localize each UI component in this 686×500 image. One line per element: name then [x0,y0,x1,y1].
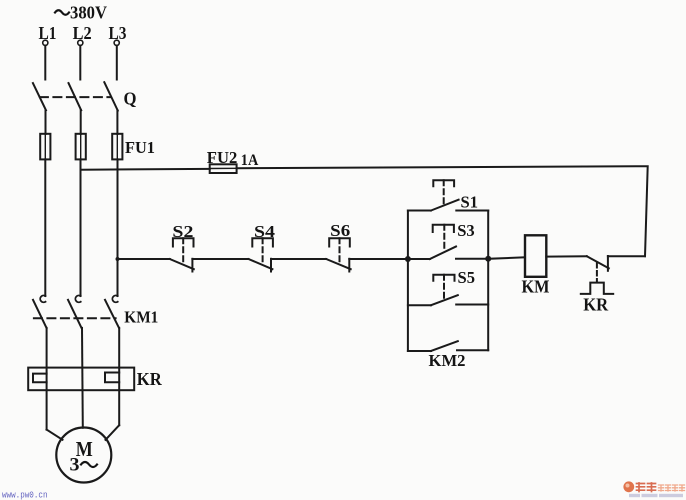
contact KM2 blade (NO) [431,341,458,351]
svg-text:www.pw0.cn: www.pw0.cn [2,489,48,500]
svg-text:380V: 380V [70,3,107,23]
button S4 blade (NC) [249,259,273,269]
svg-text:1A: 1A [241,152,259,169]
node B (right rail junction) [485,256,491,262]
wire control row segment 2 [192,258,248,260]
svg-text:KM2: KM2 [429,351,466,370]
svg-text:L2: L2 [73,23,92,43]
contactor KM1 pole 1 blade [33,300,47,328]
svg-text:S6: S6 [330,221,350,240]
button S5 linkage dashed [443,275,445,299]
button S6 linkage dashed [339,238,341,264]
wire pole2 KM1 to KR box [81,328,84,428]
svg-text:S3: S3 [457,221,475,240]
wire L1 upper [44,46,46,80]
coil KM [525,235,546,276]
wire pole1 KM1 to KR box [46,328,48,430]
node A (left rail junction) [405,256,411,262]
wire control row segment 4 [349,258,408,260]
wire L2 upper [79,46,81,80]
svg-text:KR: KR [583,295,609,315]
button S2 actuator bracket [173,238,194,246]
button S3 blade (NO) [430,247,456,260]
svg-text:Q: Q [124,88,137,108]
fuse FU1 pole 3 [112,134,122,160]
button S2 linkage dashed [182,238,184,264]
watermark dzsc logo circle [623,481,634,492]
contactor KM1 linkage dashed [34,317,116,319]
relay KR thermal element symbol [581,283,613,294]
wire motor lead 3 diagonal [106,425,120,440]
switch Q pole 3 blade [104,82,118,110]
svg-text:KM1: KM1 [124,307,158,326]
wire KR contact to right riser [608,255,645,257]
wire L3 upper [116,46,118,80]
fuse FU1 pole 1 [40,134,50,160]
button S5 actuator bracket [433,275,454,281]
contactor KM1 pole 3 blade [105,300,119,328]
wire left rail [407,211,409,352]
contactor KM1 pole 3 arc [112,295,117,302]
wire L3 lower (to KM1) [117,159,119,296]
switch Q linkage dashed [40,96,111,98]
contactor KM1 pole 1 arc [40,295,45,302]
button S3 left wire [408,258,430,260]
button S3 actuator bracket [433,225,454,232]
svg-text:KR: KR [137,369,163,389]
button S1 branch left wire [408,210,431,212]
wire L1 mid [45,110,47,134]
button S6 actuator bracket [329,238,350,246]
switch Q pole 2 blade [69,83,82,110]
wire control top right [237,166,648,256]
wire right rail [487,211,489,351]
svg-text:S5: S5 [458,268,476,287]
terminal L2 [73,23,92,46]
button S2 blade (NC) [170,259,194,269]
button S1 blade (NO) [431,200,459,211]
node junction L3 tap [116,257,120,261]
wire node B to coil [488,257,525,259]
wire coil to KR contact [546,255,587,257]
svg-text:FU2: FU2 [207,148,238,167]
relay KR box [28,368,134,391]
button S1 linkage dashed [443,180,445,203]
button S4 linkage dashed [262,238,264,264]
contactor KM1 pole 2 arc [75,295,80,302]
relay KR linkage dashed [596,263,598,281]
wire control top (tap from L2) [81,168,210,171]
svg-text:FU1: FU1 [125,138,155,157]
terminal L3 [109,23,127,46]
fuse FU2 [210,164,237,173]
svg-text:L1: L1 [39,23,57,43]
watermark dzsc sub text strip [629,494,683,497]
contact KM2 branch left wire [408,350,431,352]
supply label ~380V [55,3,107,23]
motor M circle [56,428,111,483]
wire L2 lower (to KM1) [80,159,82,296]
wire control row segment 1 [118,258,170,260]
wire L1 lower (to KM1) [44,159,46,296]
button S2 stop tick [191,259,193,272]
wire pole3 KM1 to KR box [118,328,120,425]
button S6 stop tick [348,259,350,272]
watermark dzsc main text blocks [637,483,656,492]
contact KR stop tick [607,256,609,271]
button S3 linkage dashed [443,225,445,249]
button S1 actuator bracket [433,180,454,186]
relay KR heater element pole3 [105,373,119,383]
contact KM2 branch right wire [457,349,488,351]
wire L2 mid [80,110,82,134]
terminal L1 [39,23,57,46]
wire motor lead 1 diagonal [47,430,63,440]
wire control row segment 3 [271,258,326,260]
button S5 branch right wire [456,304,488,306]
motor 3~ label [70,455,98,476]
fuse FU1 pole 2 [76,134,86,160]
switch Q pole 1 blade [33,83,46,110]
button S1 branch right wire [456,210,488,212]
svg-text:3: 3 [70,455,80,476]
contactor KM1 pole 2 blade [68,300,82,328]
wire L3 mid [116,110,118,134]
contact KR blade (NC) [587,256,609,268]
button S4 actuator bracket [252,238,273,246]
relay KR heater element pole1 [33,374,47,383]
button S6 blade (NC) [326,259,351,269]
button S5 branch left wire [408,304,431,306]
button S4 stop tick [270,259,272,272]
button S3 right wire [456,258,488,260]
button S5 blade (NO) [431,295,458,305]
svg-text:KM: KM [522,277,550,297]
svg-text:S1: S1 [461,193,479,212]
